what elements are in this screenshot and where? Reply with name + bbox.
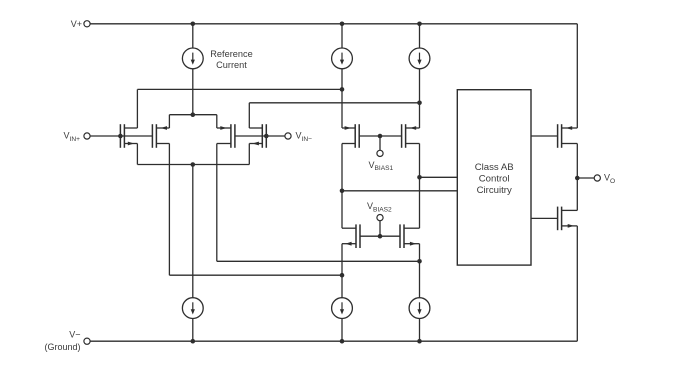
- wire output NMOS source to V-: [576, 226, 578, 341]
- wire box to output NMOS gate: [531, 217, 558, 219]
- transistor M7 (lower cascode left, NMOS): [359, 224, 361, 248]
- wire right cascode drain column: [419, 144, 421, 229]
- current source I1 (Reference Current): [192, 24, 194, 48]
- svg-text:Current: Current: [216, 60, 247, 70]
- wire NMOS-pair source join: [137, 164, 249, 166]
- svg-text:(Ground): (Ground): [44, 342, 80, 352]
- svg-text:VBIAS2: VBIAS2: [367, 201, 392, 213]
- terminal V+: [84, 21, 90, 27]
- wire V- rail: [90, 340, 577, 342]
- wire left cascode drain column: [341, 144, 343, 229]
- wire M2 drain to lower cascode (line B): [168, 144, 170, 276]
- current source I3: [419, 24, 421, 48]
- wire output node: [576, 144, 578, 211]
- current source I6: [409, 298, 430, 319]
- wire lower cascode right source: [419, 244, 421, 298]
- node right cascode to Class AB: [417, 175, 422, 180]
- current source I5: [332, 298, 353, 319]
- node left cascode to Class AB: [340, 189, 345, 194]
- wire V_BIAS1 gates: [359, 135, 401, 137]
- svg-text:Circuitry: Circuitry: [477, 185, 512, 196]
- wire box to output PMOS gate: [531, 135, 558, 137]
- node reference tail: [191, 112, 196, 117]
- transistor M10 (output NMOS): [557, 207, 559, 231]
- current source I4: [182, 298, 203, 319]
- svg-text:V+: V+: [71, 19, 82, 29]
- transistor M6 (upper cascode right, PMOS): [401, 124, 403, 148]
- wire V+ rail: [90, 23, 577, 25]
- transistor M2 (PMOS, V_IN+ inner): [151, 124, 153, 148]
- wire V_IN- gate: [235, 135, 285, 137]
- wire V_BIAS2 gates: [360, 235, 400, 237]
- transistor M1 (NMOS, V_IN+ outer): [119, 124, 121, 148]
- svg-text:Class AB: Class AB: [475, 162, 514, 173]
- wire V_IN+ gate: [90, 135, 152, 137]
- transistor M8 (lower cascode right, NMOS): [399, 224, 401, 248]
- wire M1 drain to cascode (line C): [137, 88, 342, 90]
- wire M4 drain to cascode (line D): [249, 102, 419, 104]
- svg-text:VBIAS1: VBIAS1: [369, 160, 394, 172]
- terminal V_IN-: [285, 133, 291, 139]
- wire M3 drain to lower cascode (line A): [216, 144, 218, 262]
- transistor M3 (PMOS, V_IN- inner): [234, 124, 236, 148]
- terminal V_IN+: [84, 133, 90, 139]
- transistor M5 (upper cascode left, PMOS): [358, 124, 360, 148]
- transistor M4 (NMOS, V_IN- outer): [265, 124, 267, 148]
- wire PMOS-pair source join: [169, 114, 216, 116]
- wire lower cascode left source: [341, 244, 343, 298]
- block Class AB Control Circuitry: [457, 90, 531, 265]
- svg-text:Reference: Reference: [210, 49, 252, 59]
- terminal V_BIAS1: [377, 150, 383, 156]
- transistor M9 (output PMOS): [557, 124, 559, 148]
- svg-text:VIN−: VIN−: [296, 131, 313, 143]
- wire V+ to output PMOS source: [576, 24, 578, 128]
- terminal V_BIAS2: [377, 215, 383, 221]
- current source I2: [341, 24, 343, 48]
- svg-text:VIN+: VIN+: [64, 131, 81, 143]
- svg-text:V−: V−: [69, 330, 80, 340]
- wire NMOS tail: [192, 165, 194, 298]
- node V_O: [575, 176, 580, 181]
- svg-text:VO: VO: [604, 173, 615, 185]
- svg-text:Control: Control: [479, 173, 510, 184]
- terminal V_O: [594, 175, 600, 181]
- terminal V- (Ground): [84, 338, 90, 344]
